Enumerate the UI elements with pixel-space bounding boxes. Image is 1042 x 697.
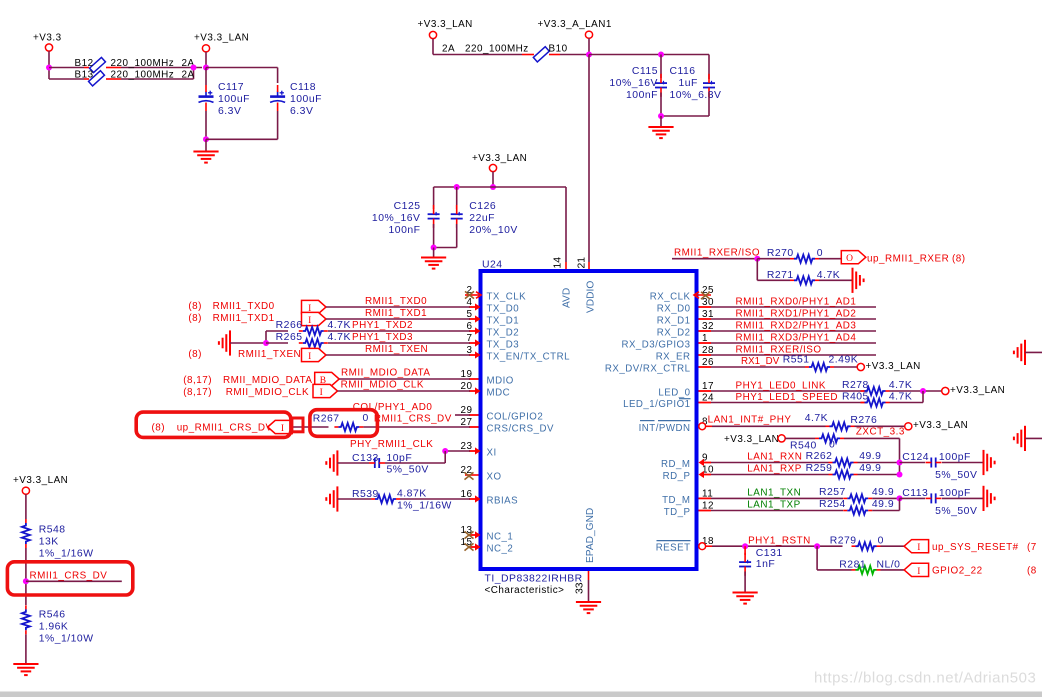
wire RMII1_TXD0	[326, 306, 470, 308]
svg-text:+V3.3_LAN: +V3.3_LAN	[950, 385, 1005, 396]
svg-text:LED_1/GPIO1: LED_1/GPIO1	[623, 399, 690, 410]
power +V3.3_LAN top-left	[194, 33, 249, 68]
net label LAN1_TXP	[747, 500, 800, 511]
junction C131	[742, 543, 748, 549]
svg-text:COL/GPIO2: COL/GPIO2	[487, 412, 544, 423]
junction B13 join	[191, 65, 197, 71]
pin stub arrow y547	[469, 543, 481, 550]
wire RMII1_RXD1/PHY1_AD2	[711, 318, 876, 320]
svg-text:NC_2: NC_2	[487, 544, 514, 555]
wire R548 to junction	[25, 548, 27, 605]
wire to R267	[292, 426, 328, 428]
pin 24 LED_1/GPIO1	[623, 393, 714, 411]
wire C131 to gnd	[744, 572, 746, 593]
svg-text:TD_P: TD_P	[664, 507, 691, 518]
power +V3.3_LAN R540	[724, 434, 785, 445]
pin stub y415	[469, 414, 479, 416]
junction RD_P	[897, 472, 903, 478]
pin stub right y331	[699, 330, 712, 332]
wire R276 to pwr	[855, 425, 905, 427]
svg-text:RMII1_RXD2/PHY1_AD3: RMII1_RXD2/PHY1_AD3	[736, 321, 857, 332]
wire LAN1_RXN	[711, 462, 829, 464]
wire C126 bottom	[434, 224, 457, 248]
svg-text:RD_M: RD_M	[661, 459, 690, 470]
svg-text:+V3.3_LAN: +V3.3_LAN	[866, 361, 921, 372]
pin stub arrow y391	[469, 387, 481, 394]
pin stub y379	[469, 378, 479, 380]
pin 25 RX_CLK	[650, 285, 714, 303]
label ZXCT_3.3	[856, 426, 905, 437]
svg-text:TX_D0: TX_D0	[487, 304, 520, 315]
svg-text:2A: 2A	[182, 70, 195, 81]
svg-text:220_100MHz: 220_100MHz	[465, 44, 529, 55]
net label RMII1_CRS_DV	[374, 414, 452, 425]
wire C117 bottom lead	[205, 111, 207, 139]
pin 9 RD_M	[661, 453, 708, 471]
svg-text:100uF: 100uF	[290, 94, 322, 105]
svg-text:(8,17): (8,17)	[183, 375, 212, 386]
svg-text:RMII1_TXD1: RMII1_TXD1	[365, 308, 427, 319]
pin stub right y319	[699, 318, 712, 320]
wire LAN1_TXP	[711, 510, 843, 512]
svg-text:RX_DV/RX_CTRL: RX_DV/RX_CTRL	[605, 364, 691, 375]
svg-text:RX1_DV: RX1_DV	[741, 356, 780, 367]
svg-text:+V3.3_LAN: +V3.3_LAN	[13, 475, 68, 486]
wire RMII1_RXD0/PHY1_AD1	[711, 306, 876, 308]
wire to ground	[660, 116, 662, 127]
net label LAN1_RXP	[747, 464, 802, 475]
svg-text:R267: R267	[313, 414, 340, 425]
svg-text:14: 14	[552, 257, 563, 269]
net label RMII1_TXD0	[365, 296, 427, 307]
chip characteristic	[485, 585, 565, 596]
net label PHY1_TXD2	[352, 320, 413, 331]
ground under C125	[421, 258, 446, 269]
resistor R271	[767, 270, 840, 285]
net label RMII1_TXD1	[365, 308, 427, 319]
net label PHY_RMII1_CLK	[350, 439, 433, 450]
pin stub arrow y499	[469, 495, 481, 502]
net label RMII1_CRS_DV	[30, 571, 108, 582]
svg-text:13K: 13K	[39, 537, 59, 548]
pin stub right y498.4	[699, 497, 712, 499]
svg-text:AVD: AVD	[562, 288, 573, 308]
svg-text:I: I	[308, 352, 312, 362]
svg-text:TD_M: TD_M	[662, 495, 690, 506]
port RMII1_TXD1	[302, 312, 327, 326]
port up_RMII1_CRS_DV	[268, 420, 293, 434]
svg-text:0: 0	[878, 536, 884, 547]
svg-text:C117: C117	[218, 82, 244, 93]
svg-text:C124: C124	[902, 452, 929, 463]
svg-text:20%_10V: 20%_10V	[469, 225, 518, 236]
resistor R546	[22, 605, 94, 644]
svg-text:RX_ER: RX_ER	[656, 352, 691, 363]
pin stub right y343	[699, 342, 712, 344]
svg-text:+V3.3_A_LAN1: +V3.3_A_LAN1	[538, 19, 612, 30]
label (8) RMII1_TXD1	[188, 313, 274, 324]
capacitor C125	[372, 201, 440, 236]
svg-text:RMII1_TXEN: RMII1_TXEN	[365, 344, 428, 355]
ground R271	[853, 268, 864, 293]
label (8) up_RMII1_CRS_DV	[152, 423, 273, 434]
svg-text:RMII_MDIO_CLK: RMII_MDIO_CLK	[341, 380, 424, 391]
label (8) RMII1_TXD0	[188, 301, 274, 312]
svg-text:100nF: 100nF	[626, 90, 658, 101]
capacitor C117	[199, 82, 250, 117]
ground TX pulls	[219, 330, 230, 355]
pin 8 INT/PWDN	[639, 416, 708, 434]
svg-text:49.9: 49.9	[872, 499, 894, 510]
footer strip	[0, 692, 1042, 697]
svg-text:49.9: 49.9	[872, 487, 894, 498]
svg-text:49.9: 49.9	[859, 451, 881, 462]
junction RXER	[754, 256, 760, 262]
ground under C115	[648, 127, 673, 138]
svg-text:10%_6.3V: 10%_6.3V	[670, 90, 722, 101]
wire XI riser	[444, 451, 446, 463]
no-connect X pin 22	[465, 472, 479, 479]
svg-text:I: I	[917, 567, 921, 577]
wire R405 up	[890, 391, 924, 403]
resistor R405	[842, 392, 912, 407]
label (8) RMII1_TXEN	[188, 349, 301, 360]
svg-text:RX_D1: RX_D1	[657, 316, 691, 327]
svg-text:PHY1_RSTN: PHY1_RSTN	[748, 536, 811, 547]
svg-text:10%_16V: 10%_16V	[372, 213, 421, 224]
svg-text:(8): (8)	[188, 313, 202, 324]
svg-text:6.3V: 6.3V	[290, 106, 313, 117]
port GPIO2_22	[904, 563, 929, 577]
label (8,17) RMII_MDIO_CLK	[183, 387, 309, 398]
svg-text:U24: U24	[482, 260, 503, 271]
power +V3.3_LAN bottom	[13, 475, 68, 519]
svg-text:<Characteristic>: <Characteristic>	[485, 585, 565, 596]
pin 21 VDDIO	[576, 257, 596, 313]
pin 16 RBIAS	[461, 489, 519, 507]
svg-text:100pF: 100pF	[939, 488, 971, 499]
svg-text:(8): (8)	[152, 423, 166, 434]
svg-text:RMII1_TXD1: RMII1_TXD1	[213, 313, 275, 324]
pin 4 TX_D0	[467, 297, 520, 315]
svg-text:100pF: 100pF	[939, 452, 971, 463]
pin 31 RX_D1	[657, 309, 714, 327]
svg-text:C126: C126	[469, 201, 496, 212]
port RMII_MDIO_DATA	[315, 372, 340, 386]
wire R271 to gnd	[819, 279, 853, 281]
svg-text:CRS/CRS_DV: CRS/CRS_DV	[487, 424, 554, 435]
svg-text:1uF: 1uF	[679, 78, 698, 89]
svg-text:C118: C118	[290, 82, 316, 93]
pin 23 XI	[461, 441, 497, 459]
svg-text:5%_50V: 5%_50V	[935, 470, 977, 481]
wire R257 to junction	[872, 497, 899, 499]
pin stub right y510.5	[699, 510, 712, 512]
junction RD_M	[897, 460, 903, 466]
chip part number	[485, 574, 583, 585]
wire R262 to junction	[858, 462, 900, 464]
power +V3.3_A_LAN1	[538, 19, 612, 55]
ferrite bead B13	[75, 70, 195, 86]
svg-text:+V3.3: +V3.3	[33, 33, 62, 44]
label (8,17) RMII_MDIO_DATA	[183, 375, 312, 386]
no-connect X pin 2	[465, 291, 481, 298]
pin 18 bubble	[699, 543, 712, 550]
pin 13 NC_1	[461, 525, 514, 543]
svg-text:21: 21	[576, 257, 587, 269]
svg-text:4.87K: 4.87K	[397, 488, 427, 499]
ground C133	[326, 450, 337, 475]
wire PHY1_TXD3	[328, 342, 470, 344]
pin 14 AVD	[552, 257, 572, 308]
svg-text:O: O	[846, 254, 853, 264]
pin 33 EPAD_GND	[575, 508, 596, 602]
pin 8 bubble	[699, 423, 712, 430]
net label RMII1_RXD2/PHY1_AD3	[736, 321, 857, 332]
label up_RMII1_RXER (8)	[867, 254, 966, 265]
svg-text:RMII1_TXEN: RMII1_TXEN	[238, 349, 301, 360]
ground R539	[326, 486, 337, 511]
svg-text:+V3.3_LAN: +V3.3_LAN	[418, 19, 473, 30]
resistor R267	[313, 413, 369, 431]
svg-text:R254: R254	[819, 499, 846, 510]
pin 19 MDIO	[461, 369, 514, 387]
ground C124	[984, 450, 995, 475]
net label RMII1_TXEN	[365, 344, 428, 355]
svg-text:1%_1/16W: 1%_1/16W	[39, 549, 94, 560]
wire to ground	[205, 139, 207, 151]
junction +V3.3 rail	[46, 65, 52, 71]
value 4.7K R276	[805, 413, 828, 424]
svg-text:R278: R278	[842, 380, 869, 391]
svg-text:R281: R281	[839, 559, 866, 570]
resistor R548	[22, 519, 94, 560]
pin 6 TX_D2	[467, 321, 520, 339]
pin 15 NC_2	[461, 537, 514, 555]
pin stub arrow y343	[469, 339, 481, 346]
ground floating right 1	[1014, 340, 1042, 365]
net label LAN1_RXN	[747, 452, 802, 463]
svg-text:RMII1_RXD0/PHY1_AD1: RMII1_RXD0/PHY1_AD1	[736, 297, 857, 308]
power +V3.3_LAN R551	[857, 361, 921, 372]
svg-text:C113: C113	[902, 488, 928, 499]
svg-text:(8): (8)	[188, 349, 202, 360]
wire RMII1_CRS_DV	[363, 426, 470, 428]
wire VDDIO drop	[588, 55, 590, 272]
pin 10 RD_P	[663, 465, 714, 483]
wire RBIAS	[400, 498, 470, 500]
net label RMII1_RXD3/PHY1_AD4	[736, 333, 857, 344]
junction C117 gnd	[203, 136, 209, 142]
resistor R551	[783, 354, 858, 371]
port RMII1_TXD0	[302, 300, 327, 314]
pin 25 stub with X	[694, 292, 711, 299]
net label RMII_MDIO_CLK	[341, 380, 424, 391]
wire B10 to junction	[549, 54, 589, 56]
svg-text:6.3V: 6.3V	[218, 106, 241, 117]
wire R259 to junction	[858, 474, 900, 476]
svg-text:RMII_MDIO_DATA: RMII_MDIO_DATA	[223, 375, 312, 386]
pin 10 arrow	[699, 471, 712, 478]
ferrite bead B10	[442, 44, 568, 62]
net label RX1_DV	[741, 356, 780, 367]
junction XI	[442, 448, 448, 454]
wire RMII1_RXER/ISO	[711, 354, 876, 356]
wire RMII1_RXD2/PHY1_AD3	[711, 330, 876, 332]
wire R540 to vert	[844, 438, 900, 474]
svg-text:EPAD_GND: EPAD_GND	[585, 508, 596, 563]
svg-text:R546: R546	[39, 610, 66, 621]
ground R546	[13, 664, 38, 675]
svg-text:2.49K: 2.49K	[829, 354, 859, 365]
pin stub arrow y331	[469, 327, 481, 334]
wire rail to C116	[589, 55, 709, 80]
wire RMII_MDIO_DATA	[339, 378, 470, 380]
wire C124 to gnd	[942, 462, 984, 464]
svg-text:RMII1_TXD0: RMII1_TXD0	[365, 296, 427, 307]
svg-text:RX_D3/GPIO3: RX_D3/GPIO3	[621, 340, 690, 351]
pin 20 MDC	[461, 381, 511, 399]
svg-text:R279: R279	[830, 536, 857, 547]
pin 1 RX_D3/GPIO3	[621, 333, 708, 351]
svg-text:R540: R540	[790, 440, 817, 451]
pin stub right y391	[699, 390, 712, 392]
wire RXER branch down	[757, 259, 790, 281]
resistor R266	[266, 320, 351, 335]
resistor R259	[806, 463, 882, 478]
pin stub right y367	[699, 366, 712, 368]
wire RMII1_RXER/ISO	[672, 258, 757, 260]
wire LAN1_INT	[712, 425, 826, 427]
resistor R254	[819, 499, 894, 514]
svg-text:XO: XO	[487, 472, 502, 483]
junction C115 top	[658, 52, 664, 58]
annotation box up_RMII1_CRS_DV	[136, 412, 291, 437]
pin stub arrow y355	[469, 351, 481, 358]
svg-text:RMII1_RXD3/PHY1_AD4: RMII1_RXD3/PHY1_AD4	[736, 333, 857, 344]
wire RMII1_RXD3/PHY1_AD4	[711, 342, 876, 344]
label up_SYS_RESET#	[932, 542, 1037, 553]
wire PHY1_LED1_SPEED	[711, 402, 867, 404]
svg-text:PHY1_LED0_LINK: PHY1_LED0_LINK	[736, 380, 826, 391]
resistor R270	[757, 248, 823, 263]
svg-text:220_100MHz: 220_100MHz	[111, 70, 175, 81]
pin 28 RX_ER	[656, 345, 714, 363]
pin 27 CRS/CRS_DV	[461, 417, 554, 435]
pin 26 RX_DV/RX_CTRL	[605, 357, 714, 375]
wire R281 to port	[881, 569, 905, 571]
svg-text:C115: C115	[632, 66, 658, 77]
wire PHY1_TXD2	[328, 330, 470, 332]
ferrite bead B12	[75, 57, 195, 72]
pin 7 TX_D3	[467, 333, 520, 351]
pin stub arrow y307	[469, 303, 481, 310]
net label COL/PHY1_AD0	[353, 402, 433, 413]
svg-text:R271: R271	[767, 270, 794, 281]
capacitor C124	[900, 452, 978, 481]
svg-text:RMII1_CRS_DV: RMII1_CRS_DV	[30, 571, 108, 582]
pin 12 TD_P	[664, 501, 714, 519]
pin 29 COL/GPIO2	[461, 405, 544, 423]
wire rail to C118	[206, 68, 278, 84]
svg-text:C116: C116	[670, 66, 696, 77]
wire RX1_DV	[711, 366, 805, 368]
svg-text:XI: XI	[487, 448, 497, 459]
svg-text:33: 33	[575, 582, 586, 594]
svg-text:R266: R266	[276, 320, 303, 331]
capacitor C113	[900, 488, 978, 517]
resistor R262	[806, 451, 882, 466]
svg-text:TX_D2: TX_D2	[487, 328, 520, 339]
svg-text:220_100MHz: 220_100MHz	[111, 58, 175, 69]
svg-text:5%_50V: 5%_50V	[935, 506, 977, 517]
annotation box RMII1_CRS_DV	[7, 562, 132, 595]
pin 5 TX_D1	[467, 309, 520, 327]
net label RMII1_RXD0/PHY1_AD1	[736, 297, 857, 308]
wire R270 to port	[819, 258, 841, 260]
svg-text:B13: B13	[75, 70, 94, 81]
power +V3.3_LAN INT	[905, 420, 969, 431]
svg-text:0: 0	[817, 248, 823, 259]
svg-text:100nF: 100nF	[389, 225, 421, 236]
junction C125 gnd	[431, 245, 437, 251]
net label LAN1_TXN	[747, 488, 801, 499]
wire C115 top lead	[660, 55, 662, 79]
svg-text:GPIO2_22: GPIO2_22	[932, 566, 983, 577]
svg-text:LED_0: LED_0	[658, 388, 690, 399]
ground C113	[984, 486, 995, 511]
svg-text:1%_1/16W: 1%_1/16W	[397, 501, 452, 512]
wire C117 top lead	[205, 68, 207, 86]
svg-text:LAN1_RXN: LAN1_RXN	[747, 452, 802, 463]
net label RMII1_RXER/ISO	[736, 345, 822, 356]
pin 3 TX_EN/TX_CTRL	[467, 345, 571, 363]
capacitor C126	[451, 187, 518, 236]
svg-text:1nF: 1nF	[756, 559, 775, 570]
net label LAN1_INT#_PHY	[708, 415, 792, 426]
wire R546 to gnd	[25, 634, 27, 663]
pin 30 RX_D0	[657, 297, 714, 315]
net label PHY1_TXD3	[352, 332, 413, 343]
pin 22 XO	[461, 465, 502, 483]
svg-text:https://blog.csdn.net/Adrian50: https://blog.csdn.net/Adrian503	[814, 670, 1036, 687]
resistor R257	[819, 487, 894, 502]
svg-text:100uF: 100uF	[218, 94, 250, 105]
resistor R281 NL	[839, 559, 900, 574]
port up_SYS_RESET#	[904, 540, 929, 554]
svg-text:RMII1_RXER/ISO: RMII1_RXER/ISO	[674, 248, 760, 259]
junction C115 gnd	[658, 113, 664, 119]
wire B12 row	[49, 67, 202, 69]
svg-text:MDC: MDC	[487, 388, 511, 399]
power +V3.3_LAN c125	[472, 153, 527, 187]
capacitor C116	[670, 66, 722, 101]
wire R279 to port	[881, 545, 905, 547]
svg-text:+V3.3_LAN: +V3.3_LAN	[472, 153, 527, 164]
wire C133 to XI	[385, 462, 445, 464]
svg-text:I: I	[320, 388, 324, 398]
wire C115 bottom lead	[660, 93, 662, 117]
resistor R278	[842, 380, 912, 395]
junction LED pulls	[920, 388, 926, 394]
junction TX pulls	[263, 340, 269, 346]
svg-text:TX_D1: TX_D1	[487, 316, 520, 327]
svg-text:1.96K: 1.96K	[39, 622, 69, 633]
svg-text:4.7K: 4.7K	[817, 270, 840, 281]
svg-text:R405: R405	[842, 392, 869, 403]
wire XI	[445, 450, 470, 452]
resistor R279	[830, 536, 884, 551]
